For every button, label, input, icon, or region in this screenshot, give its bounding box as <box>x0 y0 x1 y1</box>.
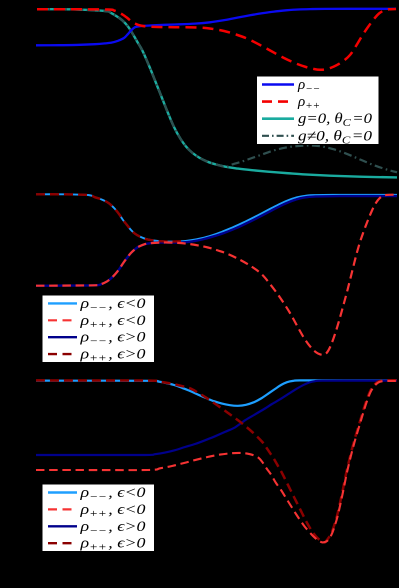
top legend box <box>257 76 380 145</box>
teal g=0 curve <box>37 9 397 177</box>
maroon dashes over cyan left <box>36 194 181 241</box>
maroon rho++ eps>0 <box>36 380 397 542</box>
svg-text:g=0, θC =0: g=0, θC =0 <box>298 111 373 129</box>
svg-text:g≠0, θC =0: g≠0, θC =0 <box>298 128 373 146</box>
middle legend box <box>42 295 155 363</box>
red rho++ curve <box>37 9 396 70</box>
cyan rho-- eps<0 <box>36 194 397 241</box>
navy rho-- eps>0 <box>36 196 397 286</box>
blue rho-- curve <box>36 9 396 46</box>
darkslate dash-dot g!=0 curve <box>37 9 397 172</box>
navy rho-- eps>0 <box>36 381 397 455</box>
cyan rho-- eps<0 <box>36 380 397 406</box>
crimson rho++ curve <box>36 195 397 355</box>
bottom legend box <box>42 484 155 552</box>
crimson rho++ eps<0 <box>36 381 398 543</box>
